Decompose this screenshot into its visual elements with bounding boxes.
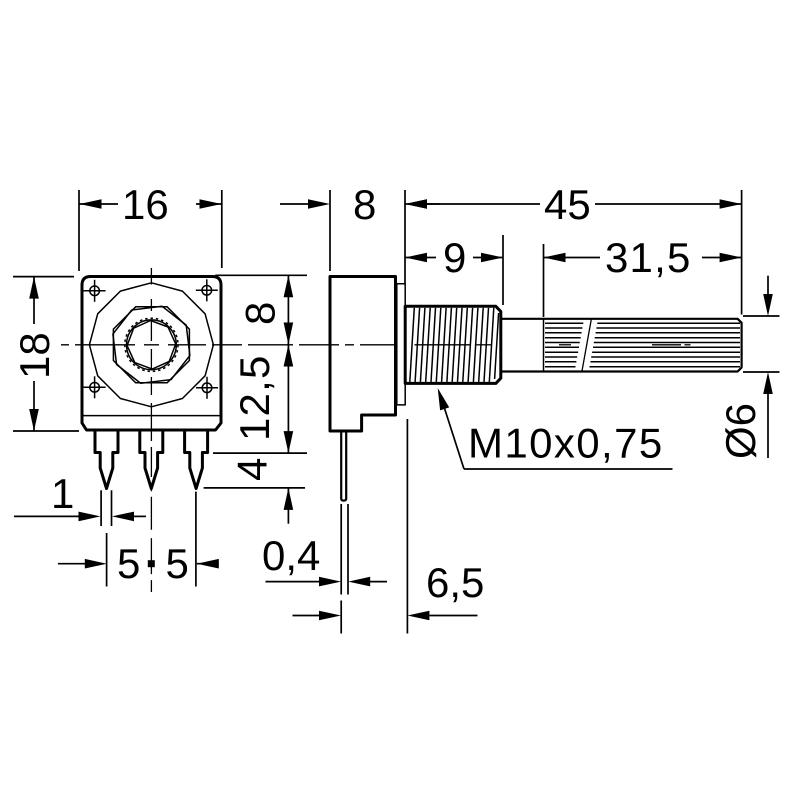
dim 18: [11, 277, 79, 431]
svg-text:8: 8: [353, 181, 376, 228]
pin 1 front: [95, 430, 118, 489]
flange plate: [397, 284, 405, 405]
pin side: [341, 432, 346, 501]
svg-text:16: 16: [122, 181, 169, 228]
body front outline: [82, 277, 221, 431]
shaft knurled section outline: [544, 319, 742, 372]
toothed shaft circle (dotted knurl): [125, 318, 178, 371]
knurl lines left of break: [545, 323, 583, 367]
dim 12,5: [213, 345, 307, 454]
dim 0,4: [262, 504, 387, 595]
octagon nut A: [113, 307, 189, 383]
threaded bushing M10: [405, 306, 501, 383]
hole bottom-right: [196, 377, 218, 399]
dim 31,5: [544, 234, 742, 317]
shaft center line: [415, 344, 691, 346]
svg-text:5: 5: [166, 540, 189, 587]
svg-text:6,5: 6,5: [426, 559, 484, 606]
shaft smooth section: [501, 318, 544, 320]
dim diameter 6: [717, 276, 780, 459]
knurl section start line: [543, 319, 545, 372]
hole top-left: [84, 280, 106, 302]
dim 9: [405, 234, 503, 305]
inner octagon bore: [127, 321, 176, 370]
label M10x0,75 leader: [438, 388, 673, 469]
thread hatch lines: [410, 308, 499, 382]
octagon nut B: [113, 306, 190, 383]
svg-text:45: 45: [544, 181, 591, 228]
svg-text:4: 4: [229, 458, 276, 481]
knurl lines right of break: [590, 323, 741, 367]
svg-text:1: 1: [51, 470, 74, 517]
dim 6,5: [293, 419, 485, 634]
body side outline: [330, 277, 396, 432]
front vertical center line: [150, 268, 152, 592]
outer dodecagon boss: [89, 283, 213, 407]
svg-text:18: 18: [11, 332, 58, 379]
hole top-right: [196, 279, 218, 301]
pin 3 front: [185, 430, 208, 489]
svg-text:Ø6: Ø6: [717, 403, 764, 459]
dim 1: [14, 470, 146, 526]
svg-text:0,4: 0,4: [262, 532, 320, 579]
svg-text:8: 8: [237, 302, 284, 325]
shaft circle inner: [126, 320, 176, 370]
svg-text:9: 9: [443, 234, 466, 281]
body front inner line: [83, 415, 220, 417]
dim 8 right: [215, 275, 307, 344]
svg-text:5: 5: [117, 540, 140, 587]
dim 16: [79, 181, 222, 271]
svg-text:31,5: 31,5: [605, 234, 692, 281]
dim 45: [405, 181, 742, 315]
svg-text:12,5: 12,5: [231, 354, 278, 441]
dim 4: [204, 458, 305, 524]
pin 2 front: [140, 430, 163, 489]
front horizontal center line: [61, 344, 395, 346]
break line on shaft: [582, 319, 592, 372]
hole bottom-left: [84, 376, 106, 398]
svg-text:M10x0,75: M10x0,75: [468, 420, 664, 467]
dim 8 top: [280, 181, 440, 271]
dim 5-5: [58, 492, 219, 587]
